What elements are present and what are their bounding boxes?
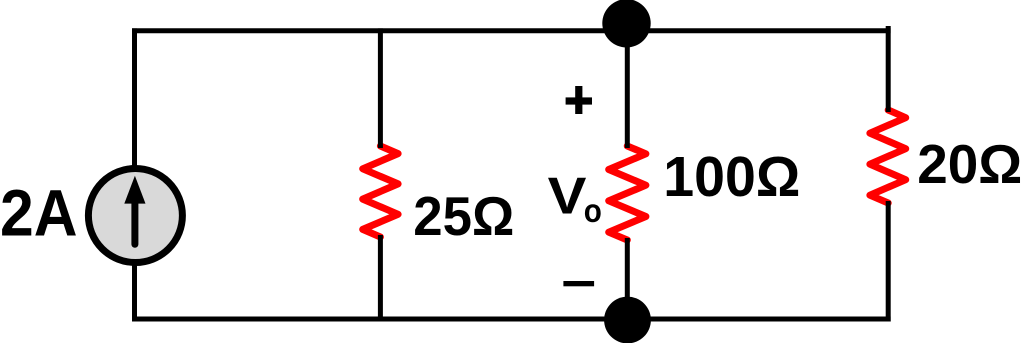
svg-text:V: V [548,167,587,225]
svg-text:2A: 2A [0,175,78,249]
wire bottom [132,317,891,322]
svg-text:25Ω: 25Ω [413,185,514,247]
resistor R2 100-ohm zigzag [609,146,646,240]
node top junction dot [602,0,650,48]
wire left (current source bottom to bottom rail) [132,261,137,322]
wire right branch bottom stub [886,201,891,322]
node bottom junction dot [604,297,651,343]
wire right branch top stub [886,26,891,112]
wire 100-ohm branch bottom stub [625,238,630,320]
wire 100-ohm branch top stub [625,20,630,148]
svg-text:100Ω: 100Ω [663,145,800,209]
wire top [132,28,891,33]
label minus polarity [563,281,594,286]
svg-text:o: o [584,192,602,229]
resistor R1 25-ohm zigzag [363,146,398,237]
resistor R3 20-ohm zigzag [870,110,906,203]
wire left (node A to current source top) [132,28,137,170]
wire 25-ohm branch top stub [378,28,383,148]
wire 25-ohm branch bottom stub [378,235,383,322]
svg-text:20Ω: 20Ω [917,133,1022,195]
current source I1 = 2A [88,169,182,263]
label plus polarity [566,97,592,104]
